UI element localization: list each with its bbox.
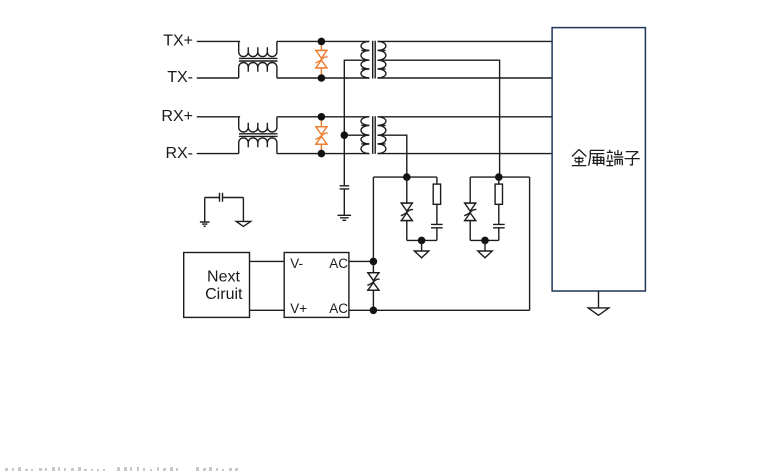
resistor R2 (495, 177, 502, 224)
box bridge U1 (284, 253, 349, 318)
node AC top (370, 258, 378, 266)
wire N2 bottom rail (470, 239, 499, 241)
node N1 top (403, 173, 411, 181)
wire bridge AC top to node (349, 260, 374, 262)
wire T2 secondary center tap down to network N1 (378, 135, 407, 177)
capacitor C4 (493, 224, 505, 240)
svg-text:RX+: RX+ (161, 108, 193, 125)
svg-text:TX-: TX- (167, 69, 193, 86)
ground (earth) left of C2 (200, 222, 210, 226)
cut-off caption text at bottom edge (5, 467, 238, 471)
ground (chassis triangle) right of C2 (236, 221, 250, 226)
node RX+ / D2 top (318, 113, 326, 121)
wire T2 primary center tap to vertical bus (344, 134, 369, 136)
wire TX+ label to choke L1 (197, 40, 240, 42)
wire terminal block ground stem (598, 291, 600, 308)
wire Next box to bridge box (top) (250, 260, 285, 262)
box metal terminal (金属端子) (552, 28, 645, 291)
svg-text:RX-: RX- (165, 145, 193, 162)
TVS diode D2 (orange) (315, 119, 328, 151)
wire choke L2 to transformer T2 (RX+ line) (277, 116, 369, 118)
svg-text:V-: V- (290, 256, 303, 271)
node TX- / D1 bottom (318, 74, 326, 82)
wire RX+ label to choke L2 (197, 116, 240, 118)
wire TX- label to choke L1 (197, 77, 239, 79)
TVS diode D1 (orange) (315, 44, 328, 76)
wire bridge AC bottom line to N2 right edge (349, 309, 530, 311)
wire T1 secondary center tap down to network N2 (378, 60, 500, 177)
ground (chassis) under terminal block (588, 308, 609, 315)
svg-text:TX+: TX+ (163, 33, 193, 50)
TVS diode D4 (464, 177, 477, 240)
transformer T1 (361, 41, 386, 79)
node N2 top (495, 173, 503, 181)
svg-text:AC: AC (329, 256, 348, 271)
box Next Ciruit (184, 253, 250, 318)
ground (chassis) under N2 (478, 240, 492, 257)
node TX+ / D1 top (318, 38, 326, 46)
wire N2 right edge down to AC bottom line (529, 177, 531, 310)
capacitor C3 (431, 224, 443, 240)
wire T1 primary center tap (344, 60, 369, 185)
choke L1 (239, 41, 278, 78)
node N2 ground (481, 237, 489, 245)
node AC bottom (370, 307, 378, 315)
wire RX- label to choke L2 (197, 153, 239, 155)
svg-text:Next: Next (207, 269, 240, 286)
wire choke L1 to transformer T1 (TX- line) (277, 77, 369, 79)
wire T1 secondary top to terminal block (378, 40, 552, 42)
transformer T2 (361, 116, 386, 154)
svg-text:Ciruit: Ciruit (205, 286, 243, 303)
svg-text:AC: AC (329, 301, 348, 316)
TVS diode D5 (across AC lines) (367, 261, 380, 310)
ground (chassis) under N1 (414, 240, 428, 257)
wire N1 left edge down to AC top node (372, 177, 374, 261)
wire T1 secondary bottom to terminal block (378, 77, 552, 79)
network N1 top rail (373, 176, 437, 178)
wire T2 secondary top to terminal block (378, 116, 552, 118)
resistor R1 (433, 177, 440, 224)
wire choke L1 to transformer T1 (TX+ line) (277, 40, 369, 42)
node center-tap bus junction (341, 131, 349, 139)
wire Next box to bridge box (bottom) (250, 309, 285, 311)
svg-text:V+: V+ (290, 301, 307, 316)
node RX- / D2 bottom (318, 150, 326, 158)
wire N1 bottom rail (407, 239, 437, 241)
wire T2 secondary bottom to terminal block (378, 153, 552, 155)
choke L2 (239, 117, 278, 154)
ground (earth) under C1 (338, 215, 352, 220)
capacitor C2 (between earth and chassis grounds) (205, 193, 244, 222)
text 金属端子 (drawn strokes) (572, 150, 640, 166)
wire choke L2 to transformer T2 (RX- line) (277, 153, 369, 155)
network N2 top rail (470, 176, 529, 178)
TVS diode D3 (401, 177, 414, 240)
capacitor C1 (center-tap bus to ground) (340, 186, 350, 216)
node N1 ground (418, 237, 426, 245)
